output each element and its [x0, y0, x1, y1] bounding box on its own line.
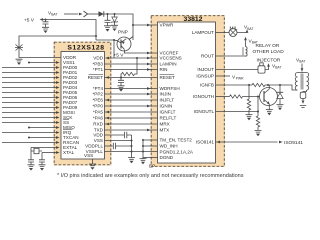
arrow VBAT coil down [301, 64, 304, 72]
svg-text:LAMPOUT: LAMPOUT [192, 30, 214, 35]
svg-text:TM_EN, TEST2: TM_EN, TEST2 [160, 138, 193, 143]
wire base [243, 96, 260, 98]
node clamp [279, 84, 281, 86]
svg-text:INJIN: INJIN [160, 92, 171, 97]
IC 33812 package dashed outline [151, 16, 224, 167]
ground VSS bus [128, 158, 135, 164]
MCU right pin names [85, 56, 104, 155]
svg-text:VDDPLL: VDDPLL [85, 144, 103, 149]
wire base tie vertical [257, 97, 259, 112]
wire +5V rail [43, 20, 96, 41]
wire EXTAL [31, 147, 56, 149]
overline IRQ [63, 128, 73, 130]
wire secondary to plug [303, 90, 307, 92]
svg-text:PWR: PWR [236, 76, 244, 80]
svg-text:*PA5: *PA5 [93, 110, 104, 115]
svg-text:ISO9141: ISO9141 [196, 140, 215, 145]
wire SS input [2, 121, 60, 124]
net label VPWR [232, 74, 244, 80]
svg-text:VCCSENS: VCCSENS [160, 56, 182, 61]
transistor Q1 PNP [117, 37, 131, 51]
diode D-clamp [277, 85, 283, 104]
svg-text:BAT: BAT [51, 13, 57, 17]
overline MCU RESET [89, 73, 104, 75]
net label VBAT coil [296, 58, 305, 64]
svg-text:S12XS128: S12XS128 [67, 45, 104, 52]
node VDDR loop [95, 35, 97, 37]
ground zener [111, 25, 118, 31]
relay coil L1 [246, 47, 248, 57]
wire MCU VSS ground [92, 159, 94, 164]
ground divider [248, 112, 250, 115]
wire PAD06 input [2, 96, 60, 99]
wire XTAL [42, 152, 56, 154]
ground R-ignoutl [255, 130, 262, 136]
wire IGNFB [216, 84, 253, 86]
wire IGNSUP [216, 75, 231, 77]
wire IGNFB to coil [265, 85, 297, 90]
arrow into MCU RESET [106, 76, 110, 79]
wire PAD09 input [2, 106, 60, 109]
wire RESET net [105, 77, 158, 79]
crystal Y1 [31, 148, 42, 160]
svg-text:INJFLT: INJFLT [160, 98, 175, 103]
svg-text:MTX: MTX [160, 128, 170, 133]
wire IGNFLT to PA5 [105, 111, 158, 114]
svg-text:VPWR: VPWR [160, 23, 174, 28]
capacitor C-5v [45, 20, 47, 22]
wire VBAT rail [104, 14, 133, 40]
wire PAD01 input [2, 71, 60, 74]
svg-text:IGNSUP: IGNSUP [196, 74, 214, 79]
wire ISO9141 [216, 141, 278, 143]
wire PT4 to WDRFSH [105, 87, 158, 90]
wire DGND [143, 157, 158, 159]
wire supply rail vertical [131, 135, 133, 158]
wire SCK input [2, 116, 60, 119]
wire PAD05 input [2, 91, 60, 94]
label RELAY OR OTHER LOAD [253, 43, 285, 55]
IC 33812 inner pin box [158, 22, 216, 163]
wire LAMPOUT [216, 32, 230, 34]
wire lamp to VBAT [237, 32, 247, 34]
wire WD_INH [143, 145, 158, 147]
wire TXD to MTX [105, 129, 158, 132]
wire VDDR loop [19, 36, 96, 58]
svg-text:RESET: RESET [160, 75, 176, 80]
arrow XTAL [56, 151, 60, 154]
wire MRX to RXD [105, 123, 158, 126]
wire base to VCCREF [124, 50, 157, 53]
svg-text:*PE6: *PE6 [93, 98, 104, 103]
resistor R-base [230, 95, 243, 98]
svg-text:*PT1: *PT1 [93, 67, 104, 72]
capacitor C-xtal [39, 160, 45, 162]
diode D1 [99, 11, 104, 17]
MCU left pin names [63, 55, 79, 155]
svg-text:LAMPIN: LAMPIN [160, 62, 177, 67]
ground C-5v [42, 27, 49, 33]
svg-text:+5 V: +5 V [24, 17, 35, 23]
svg-text:XTAL: XTAL [63, 150, 75, 155]
svg-text:INJOUT: INJOUT [197, 67, 214, 72]
svg-text:*PB3: *PB3 [93, 62, 104, 67]
capacitor C-vdd [125, 132, 132, 138]
ignition coil T1 [295, 72, 308, 91]
lamp MIL [229, 29, 237, 37]
wire PAD00 input [2, 66, 60, 69]
svg-text:RELAY OR: RELAY OR [256, 43, 280, 49]
wire MISO input [28, 126, 60, 129]
wire IRQ input [2, 131, 60, 134]
node reset RC [120, 76, 122, 78]
capacitor C-pll [113, 143, 131, 149]
svg-text:IGNFLT: IGNFLT [160, 110, 176, 115]
33812 left pin names [160, 23, 194, 161]
ground C-extal [28, 165, 35, 171]
svg-text:*PT4: *PT4 [93, 86, 104, 91]
wire divider vertical [248, 85, 250, 97]
svg-text:BAT: BAT [299, 60, 305, 64]
resistor R-ignfb series [252, 83, 265, 86]
node VSS junction [130, 139, 132, 141]
net label VBAT top [48, 11, 57, 17]
arrow VBAT [79, 13, 83, 16]
zener diode Z1 [114, 14, 116, 17]
svg-text:VSS: VSS [94, 138, 103, 143]
wire IGNOUTH [216, 96, 230, 98]
resistor R-divider lower [247, 97, 250, 112]
wire injector to VBAT [265, 67, 269, 70]
resistor R-reset [122, 72, 135, 75]
svg-text:DGND: DGND [160, 155, 174, 160]
wire INJFLT to PE6 [105, 99, 158, 102]
svg-text:OTHER LOAD: OTHER LOAD [253, 49, 285, 55]
node collector [267, 84, 269, 86]
wire VBAT feed [64, 13, 78, 15]
node pullup tap [136, 57, 138, 59]
svg-text:*PA6: *PA6 [93, 116, 104, 121]
overline 33812 RESET [160, 73, 175, 75]
wire resistor to node [120, 74, 123, 78]
node IGNFB divider [248, 84, 250, 86]
net label VBAT relay [244, 37, 258, 47]
svg-text:VSS: VSS [84, 153, 93, 158]
wire MOSI input [2, 111, 60, 114]
wire PNP emitter [129, 37, 133, 40]
net label VBAT lamp [244, 25, 253, 31]
node zener [113, 13, 115, 15]
wire TXCAN input [28, 136, 60, 139]
wire IGNOUTL [216, 111, 259, 113]
arrow ISO out [279, 141, 283, 144]
svg-text:+5 V: +5 V [114, 53, 125, 59]
arrow EXTAL [56, 146, 60, 149]
wire MCU VSS lower [105, 140, 132, 142]
overline SS [63, 118, 69, 120]
svg-text:RIN: RIN [160, 67, 168, 72]
injector solenoid [258, 63, 265, 73]
node IGNOUTL end [257, 110, 259, 112]
wire PAD03 input [2, 81, 60, 84]
wire VPWR [133, 24, 158, 26]
wire PP0 to IGNIN [105, 105, 158, 108]
svg-text:VDD: VDD [93, 56, 103, 61]
transistor Q2 ignition NPN [260, 88, 278, 106]
svg-text:PGND1,2,1A,2A: PGND1,2,1A,2A [160, 150, 194, 155]
node PGND bus [142, 150, 144, 152]
ground C-reset [118, 86, 125, 92]
svg-text:RELFLT: RELFLT [160, 116, 177, 121]
node bus junction [130, 150, 132, 152]
svg-text:RXD: RXD [93, 122, 103, 127]
spark plug [300, 92, 306, 107]
svg-text:PNP: PNP [118, 30, 128, 36]
MCU S12XS128 package shading [54, 42, 112, 166]
wire PB3 to LAMPIN [105, 63, 158, 66]
IC 33812 package shading [151, 15, 226, 167]
arrow into ISO pin [217, 141, 221, 144]
arrow lamp VBAT up [246, 29, 249, 32]
arrow into VCCSENS [147, 57, 151, 60]
node collector [113, 39, 115, 41]
ferrite bead VDDR [15, 45, 23, 51]
ground D-clamp [277, 104, 284, 110]
wire pullup drop [135, 58, 138, 74]
node VPWR tap [132, 24, 134, 26]
wire MCU VDDPLL [105, 145, 113, 147]
ground C-xtal [39, 165, 46, 171]
svg-text:MRX: MRX [160, 122, 170, 127]
svg-text:*PP2: *PP2 [93, 92, 104, 97]
wire PT1 to RIN [105, 68, 158, 71]
svg-text:MIL: MIL [230, 25, 238, 31]
svg-text:33812: 33812 [184, 16, 203, 23]
node TM_EN [142, 139, 144, 141]
wire VSS1 input [28, 61, 60, 64]
wire PAD04 input [2, 86, 60, 89]
wire chevron to diode [88, 13, 99, 15]
svg-text:IGNOUTL: IGNOUTL [194, 109, 215, 114]
wire PAD02 input [2, 76, 60, 79]
wire TM_EN TEST2 [143, 139, 158, 141]
capacitor C-extal [28, 160, 34, 162]
wire MCU VDD lower [105, 134, 125, 136]
capacitor C-vbat [107, 14, 109, 20]
wire RXCAN input [2, 141, 60, 144]
svg-text:EP: EP [149, 163, 155, 168]
arrow +5V flag [40, 18, 44, 21]
wire emitter down [268, 104, 270, 110]
arrow into MCU VDD [106, 57, 110, 60]
ground at VDDR corner [16, 59, 23, 65]
ground EP [140, 159, 147, 165]
svg-text:WDRFSH: WDRFSH [160, 86, 180, 91]
MCU package dashed outline [54, 42, 111, 165]
net label VBAT injector [267, 63, 281, 69]
arrow into VPWR [147, 24, 151, 27]
node WD_INH [142, 145, 144, 147]
svg-text:BAT: BAT [247, 27, 253, 31]
wire INJOUT [216, 69, 259, 71]
wire collector up [268, 85, 270, 89]
ground emitter [266, 110, 273, 116]
connector chevron [84, 11, 88, 17]
wire ROUT [216, 55, 246, 57]
svg-text:*PP0: *PP0 [93, 104, 104, 109]
node C-5v [44, 18, 46, 20]
svg-text:* I/O pins indicated are examp: * I/O pins indicated are examples only a… [57, 173, 244, 179]
svg-text:IGNFB: IGNFB [200, 83, 214, 88]
node C-vbat [106, 13, 108, 15]
svg-text:IGNOUTH: IGNOUTH [193, 94, 214, 99]
capacitor C-reset [120, 78, 122, 81]
wire RELFLT to PA6 [105, 117, 158, 120]
node VDDPLL junction [130, 145, 132, 147]
wire PP2 to INJIN [105, 93, 158, 96]
resistor R-ignoutl [256, 112, 259, 131]
MCU inner pin box [61, 52, 105, 160]
svg-text:IGNIN: IGNIN [160, 104, 173, 109]
33812 right pin names [192, 30, 215, 145]
wire EP collector vertical [142, 140, 144, 159]
svg-text:ROUT: ROUT [201, 54, 214, 59]
svg-text:RESET: RESET [88, 75, 104, 80]
ground C-vbat [104, 26, 111, 32]
arrow into VCCREF [147, 52, 151, 55]
svg-text:ISO9141: ISO9141 [284, 140, 303, 146]
svg-text:WD_INH: WD_INH [160, 144, 178, 149]
svg-text:VDD: VDD [93, 133, 103, 138]
wire PAD07 input [2, 101, 60, 104]
svg-text:BAT: BAT [275, 66, 281, 70]
wire collector [96, 39, 118, 42]
wire +5V distribution [113, 40, 115, 58]
ground MCU VSS [89, 164, 96, 170]
node base tie [257, 95, 259, 97]
wire VSSPLL PGND bus [105, 151, 158, 153]
